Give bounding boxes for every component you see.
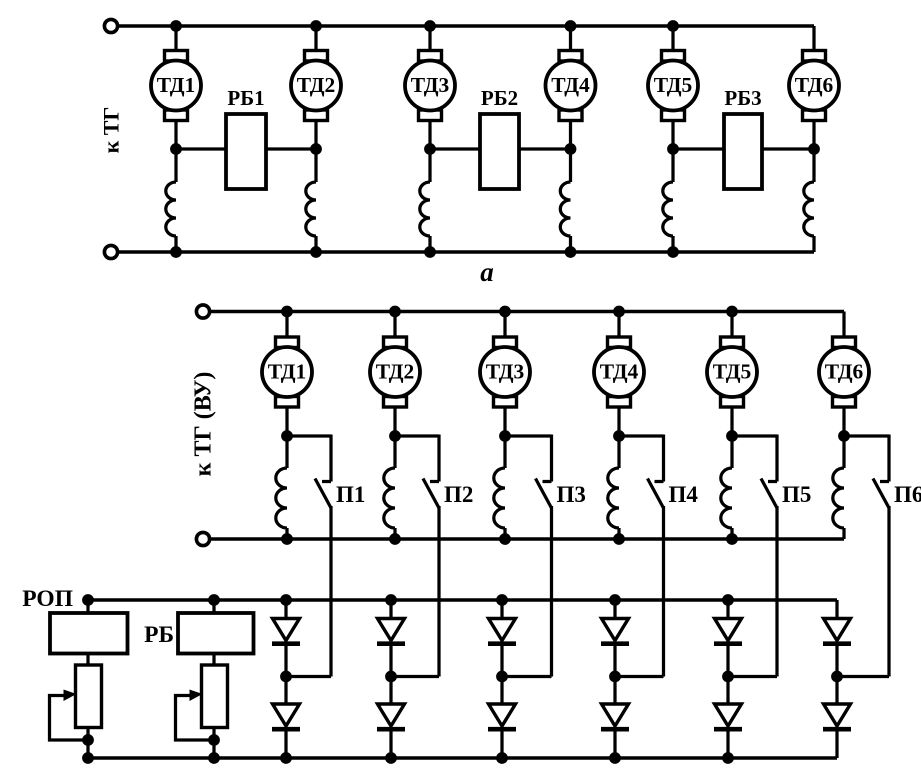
svg-text:РОП: РОП: [22, 586, 73, 612]
svg-text:ТД6: ТД6: [825, 360, 864, 384]
svg-text:ТД6: ТД6: [795, 73, 834, 97]
svg-text:РБ: РБ: [144, 622, 174, 648]
svg-text:ТД3: ТД3: [486, 360, 525, 384]
svg-text:П6: П6: [894, 482, 921, 507]
svg-text:П3: П3: [557, 482, 586, 507]
svg-text:ТД3: ТД3: [411, 73, 450, 97]
svg-text:ТД1: ТД1: [157, 73, 196, 97]
svg-text:ТД4: ТД4: [600, 360, 639, 384]
svg-text:к ТГ: к ТГ: [99, 107, 124, 154]
svg-text:РБ3: РБ3: [724, 86, 761, 110]
svg-text:к ТГ (ВУ): к ТГ (ВУ): [191, 372, 217, 477]
svg-text:РБ1: РБ1: [227, 86, 264, 110]
svg-text:а: а: [480, 257, 494, 287]
svg-text:ТД5: ТД5: [713, 360, 752, 384]
svg-text:РБ2: РБ2: [481, 86, 518, 110]
svg-text:П4: П4: [669, 482, 699, 507]
svg-text:П1: П1: [336, 482, 365, 507]
svg-text:ТД5: ТД5: [654, 73, 693, 97]
svg-text:П5: П5: [782, 482, 811, 507]
svg-text:ТД2: ТД2: [297, 73, 336, 97]
svg-text:ТД1: ТД1: [268, 360, 307, 384]
svg-text:П2: П2: [444, 482, 473, 507]
svg-text:ТД2: ТД2: [376, 360, 415, 384]
svg-text:ТД4: ТД4: [551, 73, 590, 97]
